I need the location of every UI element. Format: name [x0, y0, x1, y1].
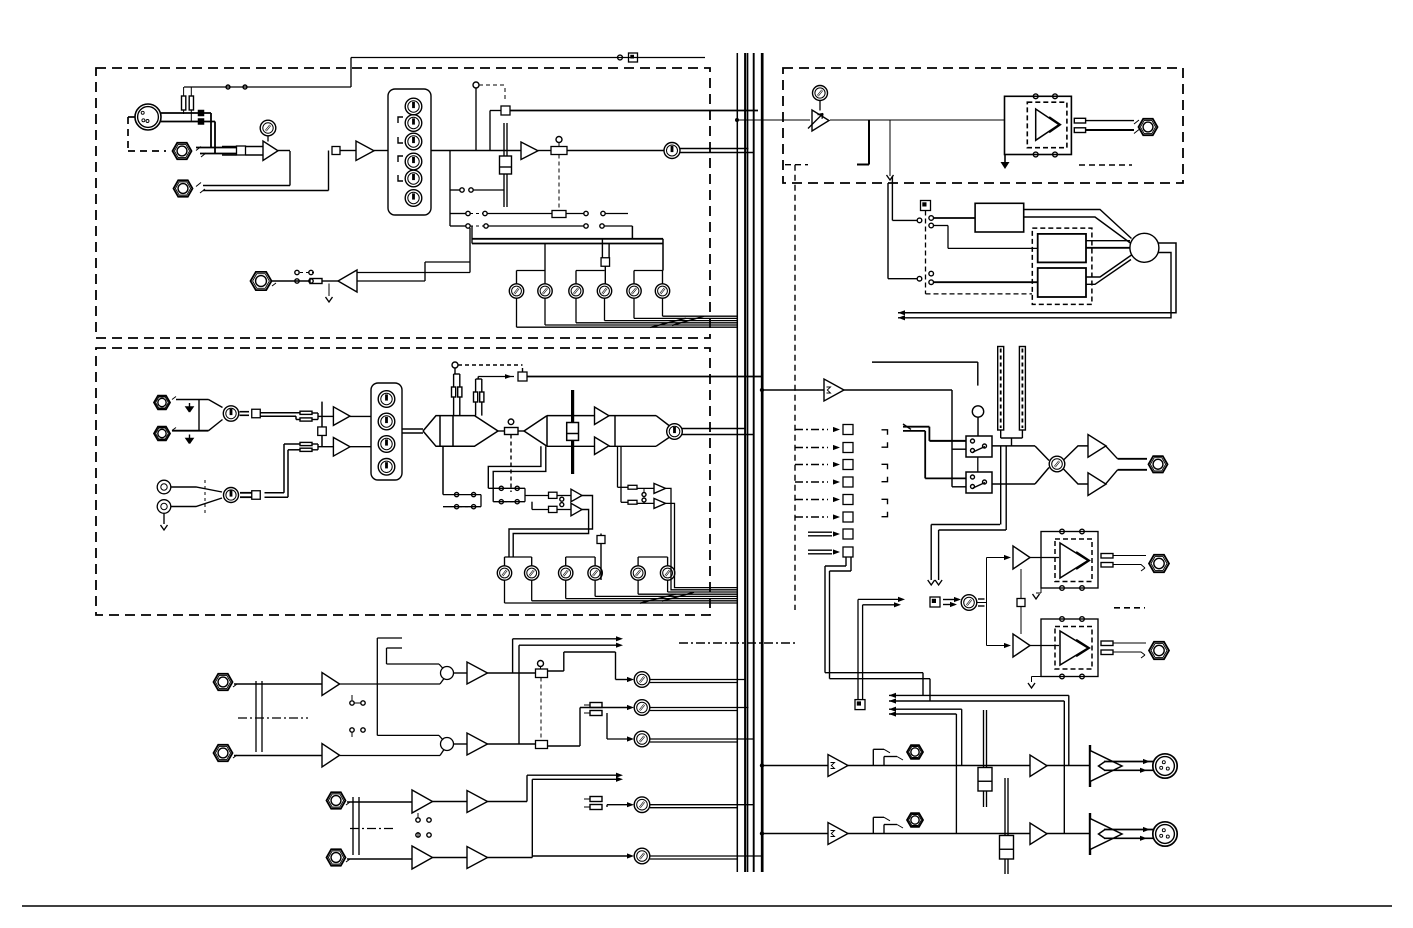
junction marks — [198, 110, 205, 117]
RCA input L CH2 — [157, 480, 171, 494]
dash-dot link line — [679, 642, 795, 644]
mix sum amplifier R — [828, 823, 848, 845]
EQ link brackets CH1 — [398, 117, 403, 123]
mix output amp L — [1089, 745, 1091, 787]
wire - bus to CR amp — [735, 118, 739, 122]
send elbow doubled — [488, 446, 541, 488]
wire - CH2 out to bus — [682, 428, 745, 430]
aux pot 3 CH1 — [569, 284, 583, 298]
wire - branch risers — [376, 638, 378, 735]
node switch CH2 — [252, 409, 261, 418]
tape select contacts 2 — [917, 276, 922, 281]
post fader amp L CH2 — [595, 407, 610, 425]
phones fuse 2a — [1101, 641, 1113, 646]
phones driver 1 — [1013, 546, 1030, 569]
wire - to pan boxes — [488, 672, 536, 674]
buffer B-R — [433, 857, 468, 859]
page footer rule — [22, 905, 1392, 907]
balance box A-R — [536, 741, 548, 749]
aux pot 2 CH1 — [538, 284, 552, 298]
mix buffer L — [1030, 755, 1047, 777]
wire - CR amp out — [830, 119, 1004, 121]
aux pot 4 CH2 — [588, 566, 602, 580]
wire - jack pair to level pot — [176, 399, 209, 401]
RCA input R CH2 — [157, 500, 171, 514]
aux return amp B-R — [412, 846, 433, 869]
wire - aux feeds CH2 — [505, 556, 532, 558]
send amp 1 — [571, 489, 582, 502]
ground 1 — [1040, 588, 1042, 593]
dashed snippet — [1079, 164, 1132, 166]
aux pot 5 CH2 — [631, 566, 645, 580]
wire - XLR to preamp — [161, 112, 211, 114]
wire - sigma out — [844, 389, 952, 391]
level meter point CH2 — [667, 424, 683, 440]
EQ knob 3 CH1 — [405, 133, 422, 150]
sum amplifier master — [824, 379, 844, 401]
phones driver 2 — [1013, 634, 1030, 657]
wire - to recorder 3 — [934, 281, 1038, 283]
wire - record send lines — [922, 673, 924, 696]
node - tape monitor — [921, 201, 931, 211]
wire - direct outs down — [666, 488, 739, 589]
wire - EQ output main — [431, 150, 521, 152]
jack input L CH2 — [154, 396, 170, 410]
aux pot 4 CH1 — [597, 284, 611, 298]
aux pot 6 CH1 — [655, 284, 669, 298]
ground 2 — [1031, 677, 1033, 683]
send select col2 — [488, 487, 525, 489]
wire - mute branch CH2 — [454, 368, 456, 374]
direct out amp R CH2 — [654, 498, 666, 508]
XLR output R — [1153, 822, 1177, 846]
wire - to sum amps — [260, 412, 300, 414]
aux return jack B-R — [327, 849, 346, 865]
mix fader R — [1004, 778, 1006, 874]
wire - recorder outs to speaker — [1024, 210, 1132, 239]
direct link contacts — [642, 493, 646, 497]
wire - rca path to sum — [265, 492, 285, 494]
mix buffer R — [1030, 823, 1047, 845]
monitor amp R — [1088, 473, 1106, 496]
speaker jack — [1139, 119, 1158, 135]
monitor output jack — [1149, 456, 1168, 472]
aux return pot A1 — [634, 672, 650, 688]
bus tap node 8 — [808, 549, 832, 551]
wire - to monitor jack — [1106, 446, 1118, 459]
insert jack L — [872, 749, 874, 765]
monitor amplifier CH1 (left facing) — [338, 270, 357, 292]
monitor level pot — [1049, 456, 1065, 472]
wire - send select rows CH2 — [442, 446, 444, 494]
headphone amp 2 — [1030, 645, 1059, 647]
aux return pot A2 — [634, 700, 650, 716]
send link contacts — [560, 497, 564, 501]
wire - waist to pan — [498, 430, 505, 432]
node - direct out CH2 — [597, 536, 605, 544]
balance box A-L — [538, 661, 544, 667]
bus tap node 7 — [808, 531, 832, 533]
aux pot 5 CH1 — [627, 284, 641, 298]
sum amplifier R CH2 — [333, 438, 350, 457]
aux return buffer A-R — [454, 743, 468, 745]
level meter point CH1 — [664, 143, 680, 159]
wire - to recorder 1 — [934, 217, 976, 219]
recorder dashed pair enclosure — [1032, 228, 1092, 304]
wire - PFL line to bus CH2 — [527, 376, 762, 378]
jack line input CH1 — [173, 143, 192, 159]
control room dashed enclosure — [783, 68, 1183, 183]
wire - sigma feed — [760, 388, 764, 392]
balance pot CH1 — [552, 211, 566, 218]
speaker fuse R — [1074, 128, 1085, 133]
stereo link dash-dot B — [350, 828, 394, 830]
phones jack 1 — [1149, 555, 1169, 572]
node - PFL CH2 — [518, 372, 527, 381]
post fader amp R CH2 — [595, 437, 610, 455]
channel fader CH2 — [571, 390, 574, 474]
aux pot 2 CH2 — [525, 566, 539, 580]
wire - tape select vertical — [891, 176, 893, 220]
pan chevron — [518, 430, 524, 432]
send amp 2 — [571, 503, 582, 516]
wire - EQ out pair — [402, 428, 423, 430]
wire - to phones jack 1 — [1113, 555, 1146, 557]
source select plugs A — [590, 703, 602, 708]
wire - phones feed — [1000, 446, 1002, 525]
wire - to speaker jack — [1086, 120, 1134, 122]
wire - aux bundle to bus CH1 — [516, 298, 518, 327]
gain pot CH1 — [260, 120, 276, 136]
EQ knob 5 CH1 — [405, 170, 422, 187]
wire - mic split feed — [184, 86, 351, 88]
EQ knob 6 CH1 — [405, 190, 422, 207]
EQ knob 4 CH1 — [405, 153, 422, 170]
line amplifier CH1 — [356, 141, 374, 161]
wire - tape return lines — [898, 243, 1176, 313]
mute circle CH2 — [508, 419, 514, 425]
monitor select switch 2 — [966, 472, 992, 493]
node - phantom switch — [629, 53, 638, 62]
bus tap node 2 — [795, 447, 828, 449]
wire - branch down (arrow) — [889, 120, 891, 176]
insert jack R — [872, 817, 874, 833]
wire - feeds to B pots — [607, 804, 627, 806]
wire - select to monitor pot — [992, 445, 1035, 447]
meter bar L — [998, 347, 1004, 431]
wire - to phones jack 2 — [1113, 642, 1146, 644]
post fader amplifier CH1 — [521, 142, 538, 160]
channel fader CH1 — [503, 123, 505, 207]
EQ section CH2 — [371, 383, 402, 480]
long dashed feed line — [785, 164, 808, 166]
wire - jack A wiring — [234, 683, 322, 685]
wire - to fader CH2 — [547, 415, 595, 417]
level pot line in CH2 — [223, 406, 238, 421]
wire - mute branch — [475, 88, 477, 151]
mix bus vertical lines — [736, 53, 738, 872]
wire - bus to mix sum L — [760, 763, 764, 767]
wire - A-R to sum circle — [340, 755, 440, 757]
wire - channel out to bus — [680, 148, 749, 150]
balance hexagon stage — [423, 416, 498, 447]
resistor pair (PFL tap) — [474, 392, 478, 402]
XLR output L — [1153, 754, 1177, 778]
wire - aux feed rows — [472, 238, 663, 240]
ground stub — [1004, 155, 1006, 163]
recorder block 1 — [975, 203, 1024, 232]
mix sum amplifier L — [828, 755, 848, 777]
wire - mix R line — [848, 833, 1090, 835]
wire - XLR shell dashed — [128, 116, 135, 118]
wire - RCA pair — [171, 487, 222, 492]
aux pot 1 CH2 — [497, 566, 511, 580]
level pot RCA CH2 — [224, 488, 239, 503]
aux return amp A-R — [322, 744, 340, 768]
pan control CH1 — [556, 137, 562, 143]
monitor amp L — [1088, 435, 1106, 458]
wire - pan outs to return pots — [548, 670, 564, 672]
buffer B-L — [433, 801, 468, 803]
aux return pot A3 — [634, 731, 650, 747]
EQ knob 1 CH2 — [378, 391, 395, 408]
CR variable amplifier — [812, 110, 829, 131]
wire - playback lines — [889, 708, 962, 710]
node - pre fader listen — [501, 106, 510, 115]
bus tap node 1 — [795, 429, 828, 431]
sum circle A-L — [441, 667, 454, 680]
wire - select feeds from left — [903, 426, 929, 428]
speaker fuse L — [1074, 118, 1085, 123]
pan dashed link — [558, 155, 560, 211]
XLR mic input connector — [135, 104, 161, 130]
insert jack CH1 — [174, 180, 193, 196]
node - record source select — [855, 700, 865, 710]
wire - into preamp — [246, 146, 264, 148]
headphone amp 1 — [1030, 557, 1059, 559]
switch contacts B — [417, 813, 419, 818]
node - phones source — [930, 597, 940, 607]
recorder block 2 — [1038, 234, 1086, 263]
aux pot 1 CH1 — [509, 284, 523, 298]
resistor pair (phantom power) — [182, 96, 186, 110]
EQ knob 4 CH2 — [378, 459, 395, 476]
aux return amp B-L — [412, 790, 433, 813]
wire - trim feeds — [618, 486, 629, 488]
wire - to XLR L — [1104, 761, 1153, 763]
stub L — [868, 120, 870, 165]
monitor select switch 1 — [966, 436, 992, 457]
wire - to XLR R — [1104, 829, 1153, 831]
aux return buffer A-L — [454, 672, 468, 674]
aux return pot B1 — [634, 797, 650, 813]
wire - A-L to sum circle — [340, 683, 440, 685]
wire - phones split — [977, 602, 987, 604]
phones fuse 2b — [1101, 650, 1113, 655]
balance pot CH2 — [505, 428, 519, 435]
monitor send jack CH1 — [251, 272, 272, 290]
wire - send outs to pot feeds — [509, 496, 593, 558]
node - pad switch — [237, 146, 246, 155]
wire - into EQ CH2 — [350, 415, 371, 417]
wire - aux pot feeds — [517, 270, 546, 272]
EQ knob 3 CH2 — [378, 436, 395, 453]
node - direct out CH1 — [601, 239, 603, 258]
trim rects CH2 line — [300, 411, 312, 414]
phones fuse 1b — [1101, 563, 1113, 568]
wire - B pots to bus — [650, 804, 754, 806]
send trim 1 — [525, 495, 549, 497]
bus tap node 5 — [795, 499, 828, 501]
mono channel dashed enclosure — [96, 68, 710, 338]
wire - monitor jack — [272, 280, 310, 282]
trim rects CH2 rca — [300, 442, 312, 445]
node link — [318, 427, 327, 436]
source select plugs B — [590, 797, 602, 802]
mix fader L — [983, 710, 985, 807]
aux return jack A-R — [214, 745, 233, 761]
node switch RCA — [252, 491, 261, 500]
bus tap node 6 — [795, 516, 828, 518]
wire - bus to mix sum R — [760, 831, 764, 835]
node - line/mic switch — [332, 147, 340, 155]
aux return amp A-L — [322, 673, 340, 696]
EQ knob 1 CH1 — [405, 98, 422, 115]
EQ section CH1 — [388, 89, 431, 215]
jack input R CH2 — [154, 427, 170, 441]
wire - arrows to phones pot — [943, 599, 959, 601]
bus tap node 4 — [795, 481, 828, 483]
aux return pot B2 — [634, 848, 650, 864]
dashed snippet 2 — [1114, 607, 1145, 609]
link brackets — [882, 430, 888, 435]
tape select contacts 1 — [917, 218, 922, 223]
monitor speaker circle — [1130, 233, 1159, 262]
wire - post/pre switch rows — [449, 151, 451, 227]
phones jack 2 — [1149, 642, 1169, 659]
wire - insert send/return — [278, 150, 290, 152]
phones level pot — [961, 595, 977, 611]
preamp amplifier CH1 — [263, 141, 278, 161]
switch contacts A — [351, 695, 353, 700]
direct out amp L CH2 — [654, 483, 666, 493]
direct out trim CH2 — [628, 485, 637, 489]
stereo link dash-dot — [238, 717, 308, 719]
wire - jack B wiring — [347, 801, 412, 803]
recorder block 3 — [1038, 268, 1086, 297]
wire - top branch — [872, 361, 978, 363]
wire - B risers — [488, 801, 528, 803]
wire - PFL line to bus — [510, 110, 758, 112]
CR level pot — [813, 86, 828, 101]
wire - monitor feed — [357, 272, 470, 274]
wire - aux bundle to bus CH2 — [504, 580, 506, 603]
sum amplifier L CH2 — [333, 407, 350, 426]
power amplifier block — [1005, 96, 1072, 154]
bus tap node 3 — [795, 464, 828, 466]
aux pot 6 CH2 — [660, 566, 674, 580]
lamp circle — [972, 406, 983, 417]
sum circle A-R — [441, 738, 454, 751]
aux return jack B-L — [327, 792, 346, 808]
EQ knob 2 CH1 — [405, 115, 422, 132]
EQ knob 2 CH2 — [378, 413, 395, 430]
phones fuse 1a — [1101, 554, 1113, 559]
wire - to meter knob — [614, 416, 616, 447]
wire - tape out routing — [845, 557, 847, 566]
aux return jack A-L — [214, 674, 233, 690]
stereo channel dashed enclosure — [96, 348, 710, 615]
resistor pair (mono sum) — [452, 387, 456, 397]
wire - return pots to bus — [650, 679, 745, 681]
send trim 2 — [531, 502, 533, 510]
aux pot 3 CH2 — [559, 566, 573, 580]
mix output amp R — [1089, 813, 1091, 855]
wire - mix L line — [848, 765, 1090, 767]
meter bar R — [1019, 347, 1025, 431]
wire - pot to monitor amps — [1064, 446, 1089, 460]
link node — [1017, 599, 1025, 607]
